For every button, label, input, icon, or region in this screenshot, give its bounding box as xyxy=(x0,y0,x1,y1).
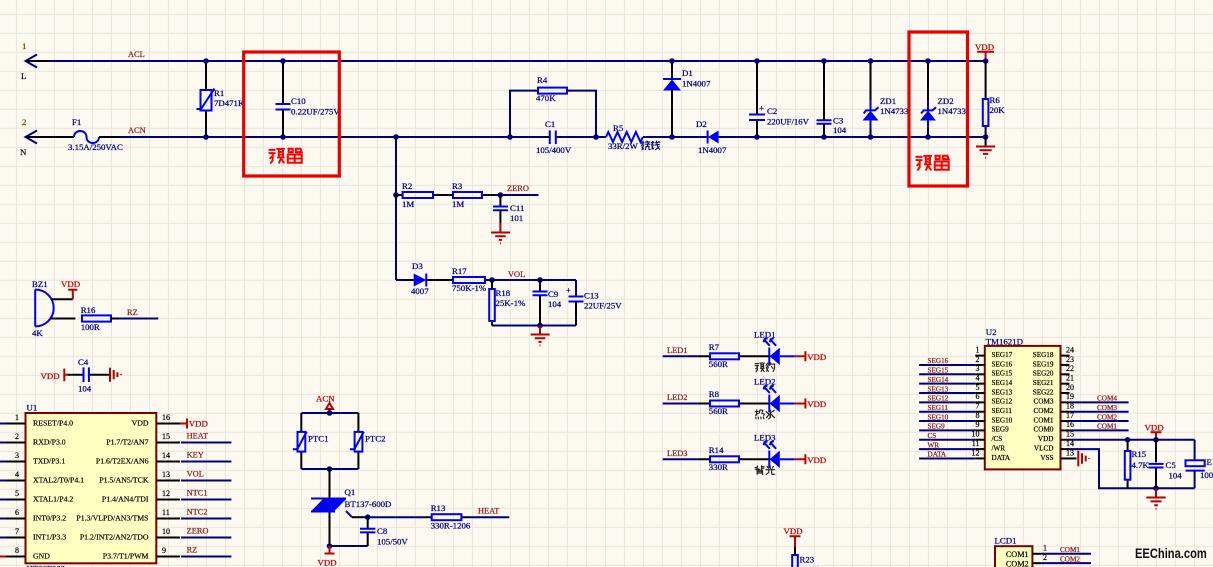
svg-text:+: + xyxy=(566,285,571,295)
resistor R23 100K xyxy=(792,547,819,567)
svg-text:R6: R6 xyxy=(990,95,1001,105)
junction dot C5 bottom xyxy=(1153,485,1159,491)
svg-text:INT1/P3.3: INT1/P3.3 xyxy=(33,532,66,541)
svg-text:VLCD: VLCD xyxy=(1034,444,1054,452)
capacitor C9 104 xyxy=(533,280,562,326)
svg-text:104: 104 xyxy=(1169,471,1183,481)
svg-text:R8: R8 xyxy=(709,389,720,399)
capacitor E 100U (right edge) xyxy=(1186,440,1213,488)
port 1/L (ACL input connector) xyxy=(21,41,37,81)
svg-text:P1.5/AN5/TCK: P1.5/AN5/TCK xyxy=(99,475,149,484)
U2 pin 21 SEG21 xyxy=(1033,373,1074,387)
svg-text:R17: R17 xyxy=(452,266,467,276)
svg-text:SEG17: SEG17 xyxy=(992,351,1013,359)
svg-text:XTAL1/P4.2: XTAL1/P4.2 xyxy=(33,494,73,503)
svg-text:/WR: /WR xyxy=(992,444,1006,452)
U2 pin 24 SEG18 xyxy=(1033,345,1074,359)
svg-text:330R: 330R xyxy=(709,462,728,472)
red reserved box 2 xyxy=(909,32,968,186)
svg-text:C5: C5 xyxy=(1166,460,1177,470)
svg-text:ZERO: ZERO xyxy=(187,527,209,536)
svg-text:SEG16: SEG16 xyxy=(992,360,1013,368)
svg-text:VDD: VDD xyxy=(1145,423,1164,433)
junction dot R6 bottom xyxy=(983,134,989,140)
svg-text:ZD2: ZD2 xyxy=(938,96,954,106)
svg-text:R3: R3 xyxy=(452,181,463,191)
svg-text:330R-1206: 330R-1206 xyxy=(431,521,471,531)
wire ACL rail xyxy=(26,60,986,62)
U1 pin 13 VOL xyxy=(99,470,231,485)
resistor R5 33R/2W (wirewound) xyxy=(606,123,660,151)
svg-text:HEAT: HEAT xyxy=(187,432,208,441)
power VDD (LED3) xyxy=(795,454,826,465)
svg-text:Q1: Q1 xyxy=(345,487,356,497)
svg-text:GND: GND xyxy=(33,551,50,560)
svg-text:22UF/25V: 22UF/25V xyxy=(584,301,622,311)
resistor R4 470K xyxy=(510,75,596,137)
svg-text:ZD1: ZD1 xyxy=(880,96,896,106)
svg-text:13: 13 xyxy=(162,470,170,479)
svg-text:WR: WR xyxy=(928,441,940,449)
svg-text:3: 3 xyxy=(976,364,980,373)
svg-text:101: 101 xyxy=(510,213,523,223)
svg-text:5: 5 xyxy=(976,383,980,392)
svg-text:1N4007: 1N4007 xyxy=(682,79,711,89)
svg-text:P1.7/T2/AN7: P1.7/T2/AN7 xyxy=(106,437,148,446)
U2 pin 15 VDD rail xyxy=(1038,430,1195,444)
thermistor PTC2 xyxy=(350,413,386,469)
svg-text:SEG19: SEG19 xyxy=(1033,360,1054,368)
svg-text:15: 15 xyxy=(1066,430,1074,439)
diode D3 4007 xyxy=(396,261,445,296)
svg-text:100U: 100U xyxy=(1200,470,1213,480)
wire HEAT xyxy=(470,516,509,518)
svg-text:1N4007: 1N4007 xyxy=(698,145,727,155)
svg-text:INT0/P3.2: INT0/P3.2 xyxy=(33,513,66,522)
svg-text:C13: C13 xyxy=(584,291,599,301)
svg-text:VDD: VDD xyxy=(1038,435,1054,443)
junction dot VDD rail xyxy=(983,58,989,64)
svg-text:LED3: LED3 xyxy=(667,449,687,458)
svg-text:PTC1: PTC1 xyxy=(308,434,329,444)
U1 pin 12 NTC1 xyxy=(102,489,231,504)
svg-text:104: 104 xyxy=(833,125,847,135)
svg-text:L: L xyxy=(21,71,26,81)
svg-text:VOL: VOL xyxy=(508,270,525,279)
svg-text:1: 1 xyxy=(976,345,980,354)
U2 pin 8 SEG10 xyxy=(919,411,1013,425)
svg-text:N: N xyxy=(20,147,27,157)
svg-text:P1.6/T2EX/AN6: P1.6/T2EX/AN6 xyxy=(96,456,149,465)
capacitor C2 220UF/16V xyxy=(749,61,810,137)
U2 pin 19 COM3 / net COM4 xyxy=(1034,392,1129,406)
svg-text:SEG9: SEG9 xyxy=(992,426,1010,434)
svg-text:D3: D3 xyxy=(412,261,423,271)
svg-text:VDD: VDD xyxy=(807,455,826,465)
svg-text:SEG15: SEG15 xyxy=(928,367,949,375)
svg-text:P1.2/INT2/AN2/TDO: P1.2/INT2/AN2/TDO xyxy=(80,532,149,541)
svg-text:COM3: COM3 xyxy=(1097,404,1117,412)
svg-text:13: 13 xyxy=(1066,448,1074,457)
junction dot C11 xyxy=(498,192,504,198)
red reserved box 1 xyxy=(244,52,340,176)
diode D2 1N4007 (in ACN rail) xyxy=(696,119,727,155)
junction dot R2 row xyxy=(393,192,399,198)
svg-text:R23: R23 xyxy=(800,555,815,565)
U2 pin 7 SEG11 xyxy=(919,402,1012,416)
LED LED2 (热水) xyxy=(754,377,795,419)
svg-text:R18: R18 xyxy=(496,288,511,298)
power VDD (U2 area) xyxy=(1145,423,1164,440)
fuse F1 xyxy=(68,117,123,152)
svg-text:SEG12: SEG12 xyxy=(928,395,949,403)
svg-text:17: 17 xyxy=(1066,411,1074,420)
U1 pin 2 RXD/P3.0 xyxy=(0,432,66,447)
svg-text:C8: C8 xyxy=(377,526,388,536)
power VDD (top right) xyxy=(975,42,994,61)
svg-text:SEG13: SEG13 xyxy=(928,385,949,393)
triac Q1 BT137-600D xyxy=(311,469,391,546)
svg-text:U1: U1 xyxy=(27,403,38,413)
svg-text:SEG10: SEG10 xyxy=(928,413,949,421)
svg-text:ACL: ACL xyxy=(128,50,145,59)
svg-text:EEChina.com: EEChina.com xyxy=(1135,546,1207,561)
U2 pin 22 SEG20 xyxy=(1033,364,1074,378)
svg-text:11: 11 xyxy=(972,439,980,448)
thermistor PTC1 xyxy=(293,413,329,469)
svg-text:DATA: DATA xyxy=(992,454,1011,462)
svg-text:E: E xyxy=(1207,457,1212,467)
svg-text:R14: R14 xyxy=(709,445,724,455)
power VDD (R23) xyxy=(784,526,803,547)
svg-text:1M: 1M xyxy=(452,199,464,209)
svg-text:NTC1: NTC1 xyxy=(187,489,208,498)
zener ZD2 1N4733 xyxy=(920,61,966,137)
U1 pin 3 TXD/P3.1 xyxy=(0,451,65,466)
svg-text:COM1: COM1 xyxy=(1060,546,1080,554)
power VDD (LED1) xyxy=(795,351,826,362)
resistor R16 100R xyxy=(81,305,120,332)
wire LED2 net xyxy=(663,393,698,404)
power VDD (LED2) xyxy=(795,399,826,410)
svg-text:1: 1 xyxy=(1043,544,1047,553)
wire LED1 net xyxy=(663,346,698,357)
svg-text:RZ: RZ xyxy=(187,546,198,555)
LCD1 pin 1 COM1 xyxy=(1006,544,1091,559)
svg-text:1N4733: 1N4733 xyxy=(938,106,967,116)
wire gate to R13 xyxy=(368,516,424,518)
varistor R1 7D471K xyxy=(197,61,245,137)
svg-text:VDD: VDD xyxy=(41,371,60,381)
capacitor C8 105/50V xyxy=(360,517,408,546)
svg-text:LED2: LED2 xyxy=(667,393,687,402)
junction dot R15 top xyxy=(1125,437,1131,443)
ground (below C11) xyxy=(491,223,510,243)
svg-text:560R: 560R xyxy=(709,359,728,369)
svg-text:LED2: LED2 xyxy=(754,377,776,387)
svg-text:16: 16 xyxy=(162,413,170,422)
svg-text:VDD: VDD xyxy=(132,418,149,427)
svg-text:8: 8 xyxy=(15,546,19,555)
svg-text:10: 10 xyxy=(162,527,170,536)
svg-text:VDD: VDD xyxy=(975,42,994,52)
junction dots D1 xyxy=(669,58,675,64)
svg-text:R16: R16 xyxy=(81,305,96,315)
svg-text:ACN: ACN xyxy=(128,126,146,135)
U1 pin 11 NTC2 xyxy=(76,508,231,523)
svg-text:VSS: VSS xyxy=(1040,454,1053,462)
svg-text:SEG16: SEG16 xyxy=(928,357,949,365)
svg-text:P3.7/T1/PWM: P3.7/T1/PWM xyxy=(103,551,149,560)
capacitor C11 101 xyxy=(493,195,524,223)
resistor R17 750K-1% xyxy=(445,266,492,293)
svg-text:15: 15 xyxy=(162,432,170,441)
svg-text:COM2: COM2 xyxy=(1097,413,1117,421)
svg-text:ZERO: ZERO xyxy=(507,184,529,193)
U2 pin 14 VLCD route xyxy=(1034,439,1195,488)
junction dots C10 xyxy=(280,58,286,64)
capacitor C10 0.22UF/275V xyxy=(276,61,341,137)
svg-text:/CS: /CS xyxy=(992,435,1003,443)
svg-text:SEG20: SEG20 xyxy=(1033,370,1054,378)
ground (below C5) xyxy=(1146,488,1165,509)
U2 pin 6 SEG12 xyxy=(919,392,1013,406)
svg-text:12: 12 xyxy=(162,489,170,498)
svg-text:SEG18: SEG18 xyxy=(1033,351,1054,359)
svg-text:VDD: VDD xyxy=(318,558,337,567)
svg-text:COM4: COM4 xyxy=(1097,395,1117,403)
svg-text:SEG14: SEG14 xyxy=(992,379,1013,387)
resistor R7 560R xyxy=(698,342,770,369)
svg-text:KEY: KEY xyxy=(187,451,204,460)
U1 pin 9 RZ xyxy=(103,546,232,561)
svg-text:SEG15: SEG15 xyxy=(992,370,1013,378)
svg-text:HT66F002: HT66F002 xyxy=(27,564,66,567)
svg-text:105/400V: 105/400V xyxy=(536,145,572,155)
text 预留 (reserved) 2 xyxy=(916,156,948,170)
U1 pin 1 RESET/P4.0 xyxy=(0,413,73,428)
svg-text:P1.3/VLPD/AN3/TMS: P1.3/VLPD/AN3/TMS xyxy=(76,513,148,522)
svg-text:7: 7 xyxy=(15,527,19,536)
svg-text:1: 1 xyxy=(22,41,26,51)
MCU U1 body xyxy=(26,403,157,567)
svg-text:LED1: LED1 xyxy=(667,346,687,355)
svg-text:16: 16 xyxy=(1066,420,1074,429)
U1 pin 8 GND xyxy=(0,546,50,561)
wire VOL bottom rail xyxy=(492,325,576,327)
svg-text:1: 1 xyxy=(15,413,19,422)
svg-text:560R: 560R xyxy=(709,406,728,416)
svg-text:33R/2W: 33R/2W xyxy=(608,141,639,151)
svg-text:24: 24 xyxy=(1066,345,1074,354)
ground (rotated, at C4) xyxy=(110,368,121,382)
svg-text:RZ: RZ xyxy=(127,308,138,317)
svg-text:104: 104 xyxy=(78,384,92,394)
svg-text:RESET/P4.0: RESET/P4.0 xyxy=(33,418,73,427)
U1 pin 14 KEY xyxy=(96,451,232,466)
svg-text:VDD: VDD xyxy=(784,526,803,536)
wire PTC bottom bar xyxy=(301,466,358,472)
svg-text:4K: 4K xyxy=(32,328,43,338)
wire VOL xyxy=(492,279,576,281)
junction dot VDD stem xyxy=(1153,437,1159,443)
junction dot R18 top xyxy=(489,277,495,283)
svg-text:C11: C11 xyxy=(510,203,524,213)
svg-text:11: 11 xyxy=(162,508,170,517)
svg-text:750K-1%: 750K-1% xyxy=(452,283,487,293)
svg-text:SEG12: SEG12 xyxy=(992,398,1013,406)
svg-text:C1: C1 xyxy=(545,119,555,129)
svg-text:COM0: COM0 xyxy=(1034,426,1054,434)
svg-text:SEG11: SEG11 xyxy=(992,407,1013,415)
svg-text:R4: R4 xyxy=(537,75,548,85)
svg-text:BT137-600D: BT137-600D xyxy=(345,499,392,509)
svg-text:4: 4 xyxy=(976,373,980,382)
svg-text:2: 2 xyxy=(1043,553,1047,562)
capacitor C4 104 xyxy=(67,357,110,394)
LED LED3 (背光) xyxy=(754,433,795,475)
svg-text:SEG22: SEG22 xyxy=(1033,388,1054,396)
power port ACN (heater branch) xyxy=(316,394,335,414)
svg-text:12: 12 xyxy=(972,448,980,457)
svg-text:14: 14 xyxy=(162,451,170,460)
capacitor C3 104 xyxy=(817,61,847,137)
svg-text:R2: R2 xyxy=(402,181,412,191)
svg-text:C3: C3 xyxy=(833,116,844,126)
junction dot gate node xyxy=(365,514,371,520)
buzzer BZ1 4K xyxy=(32,279,75,338)
U2 pin 16 COM0 / net COM1 xyxy=(1034,420,1129,434)
capacitor C1 105/400V xyxy=(536,119,572,155)
svg-text:R5: R5 xyxy=(613,123,624,133)
svg-text:VDD: VDD xyxy=(61,279,80,289)
svg-text:20K: 20K xyxy=(990,105,1006,115)
wire triac bottom xyxy=(327,543,368,549)
LCD LCD1 body xyxy=(995,536,1033,567)
svg-text:LED3: LED3 xyxy=(754,433,776,443)
diode D1 1N4007 xyxy=(663,61,711,137)
capacitor C5 104 xyxy=(1149,440,1183,488)
svg-text:22: 22 xyxy=(1066,364,1074,373)
svg-text:SEG21: SEG21 xyxy=(1033,379,1054,387)
svg-text:P1.4/AN4/TDI: P1.4/AN4/TDI xyxy=(102,494,149,503)
svg-text:7: 7 xyxy=(976,402,980,411)
junction dots R4 loop xyxy=(507,134,513,140)
resistor R15 4.7K xyxy=(1125,440,1150,488)
svg-text:COM2: COM2 xyxy=(1006,559,1029,567)
power VDD (triac bottom, downward) xyxy=(318,546,337,567)
svg-text:XTAL2/T0/P4.1: XTAL2/T0/P4.1 xyxy=(33,475,84,484)
svg-text:SEG11: SEG11 xyxy=(928,404,949,412)
svg-text:R13: R13 xyxy=(431,503,446,513)
svg-text:2: 2 xyxy=(22,117,26,127)
svg-text:5: 5 xyxy=(15,489,19,498)
U1 pin 16 VDD xyxy=(132,413,208,429)
U1 pin 4 XTAL2/T0/P4.1 xyxy=(0,470,84,485)
U2 pin 4 SEG14 xyxy=(919,373,1013,387)
svg-text:2: 2 xyxy=(15,432,19,441)
U2 pin 17 COM1 / net COM2 xyxy=(1034,411,1129,425)
svg-text:3: 3 xyxy=(15,451,19,460)
svg-text:SEG13: SEG13 xyxy=(992,388,1013,396)
svg-text:NTC2: NTC2 xyxy=(187,508,208,517)
U2 pin 5 SEG13 xyxy=(919,383,1013,397)
U2 pin 11 /WR xyxy=(919,439,1005,453)
junction dots C3 xyxy=(821,58,827,64)
wire LED3 net xyxy=(663,449,698,460)
U2 pin 12 DATA xyxy=(919,448,1011,462)
svg-text:D1: D1 xyxy=(682,68,693,78)
svg-text:4007: 4007 xyxy=(411,286,429,296)
svg-text:14: 14 xyxy=(1066,439,1074,448)
ground (rotated, at VSS pin 13) xyxy=(1078,451,1089,467)
resistor R2 1M xyxy=(396,181,453,209)
svg-text:6: 6 xyxy=(976,392,980,401)
svg-text:CS: CS xyxy=(928,432,937,440)
svg-text:VDD: VDD xyxy=(807,399,826,409)
svg-text:104: 104 xyxy=(548,299,562,309)
svg-text:9: 9 xyxy=(976,420,980,429)
svg-text:R7: R7 xyxy=(709,342,720,352)
svg-text:TM1621D: TM1621D xyxy=(986,336,1023,346)
svg-text:R15: R15 xyxy=(1132,449,1147,459)
resistor R6 20K xyxy=(983,61,1005,137)
U2 pin 10 /CS xyxy=(919,430,1002,444)
svg-text:18: 18 xyxy=(1066,402,1074,411)
U2 pin 2 SEG16 xyxy=(919,355,1013,369)
svg-text:4: 4 xyxy=(15,470,19,479)
svg-text:220UF/16V: 220UF/16V xyxy=(767,117,810,127)
svg-text:19: 19 xyxy=(1066,392,1074,401)
svg-text:2: 2 xyxy=(976,355,980,364)
U1 pin 5 XTAL1/P4.2 xyxy=(0,489,73,504)
U1 pin 6 INT0/P3.2 xyxy=(0,508,66,523)
junction dots C2 xyxy=(754,58,760,64)
svg-text:VDD: VDD xyxy=(189,419,208,429)
svg-text:C4: C4 xyxy=(78,357,89,367)
ground (below C9) xyxy=(531,326,550,346)
svg-text:COM2: COM2 xyxy=(1060,555,1080,563)
svg-text:F1: F1 xyxy=(72,117,81,127)
svg-text:COM1: COM1 xyxy=(1034,416,1054,424)
wire RZ xyxy=(120,318,159,320)
junction dot gnd xyxy=(537,323,543,329)
svg-text:4.7K: 4.7K xyxy=(1132,460,1150,470)
svg-text:1M: 1M xyxy=(402,199,414,209)
svg-text:9: 9 xyxy=(162,546,166,555)
svg-text:COM3: COM3 xyxy=(1034,398,1054,406)
resistor R8 560R xyxy=(698,389,770,416)
svg-text:TXD/P3.1: TXD/P3.1 xyxy=(33,456,65,465)
junction dot at ACN rail xyxy=(393,134,399,140)
wire PTC top bar xyxy=(301,410,358,416)
svg-text:1N4733: 1N4733 xyxy=(880,106,909,116)
junction dot C9 top xyxy=(537,277,543,283)
wire vertical net from ACN rail down xyxy=(395,137,397,280)
svg-text:COM1: COM1 xyxy=(1006,550,1029,559)
svg-text:8: 8 xyxy=(976,411,980,420)
svg-text:VDD: VDD xyxy=(807,352,826,362)
port 2/N (ACN input connector) xyxy=(20,117,37,157)
LCD driver U2 TM1621D body xyxy=(985,327,1061,469)
wire ZERO xyxy=(495,194,539,196)
svg-text:RXD/P3.0: RXD/P3.0 xyxy=(33,437,66,446)
U2 pin 18 COM2 / net COM3 xyxy=(1034,402,1129,416)
svg-text:COM2: COM2 xyxy=(1034,407,1054,415)
power VDD (buzzer) xyxy=(61,279,80,299)
svg-text:0.22UF/275V: 0.22UF/275V xyxy=(291,107,340,117)
resistor R18 25K-1% xyxy=(489,280,526,326)
